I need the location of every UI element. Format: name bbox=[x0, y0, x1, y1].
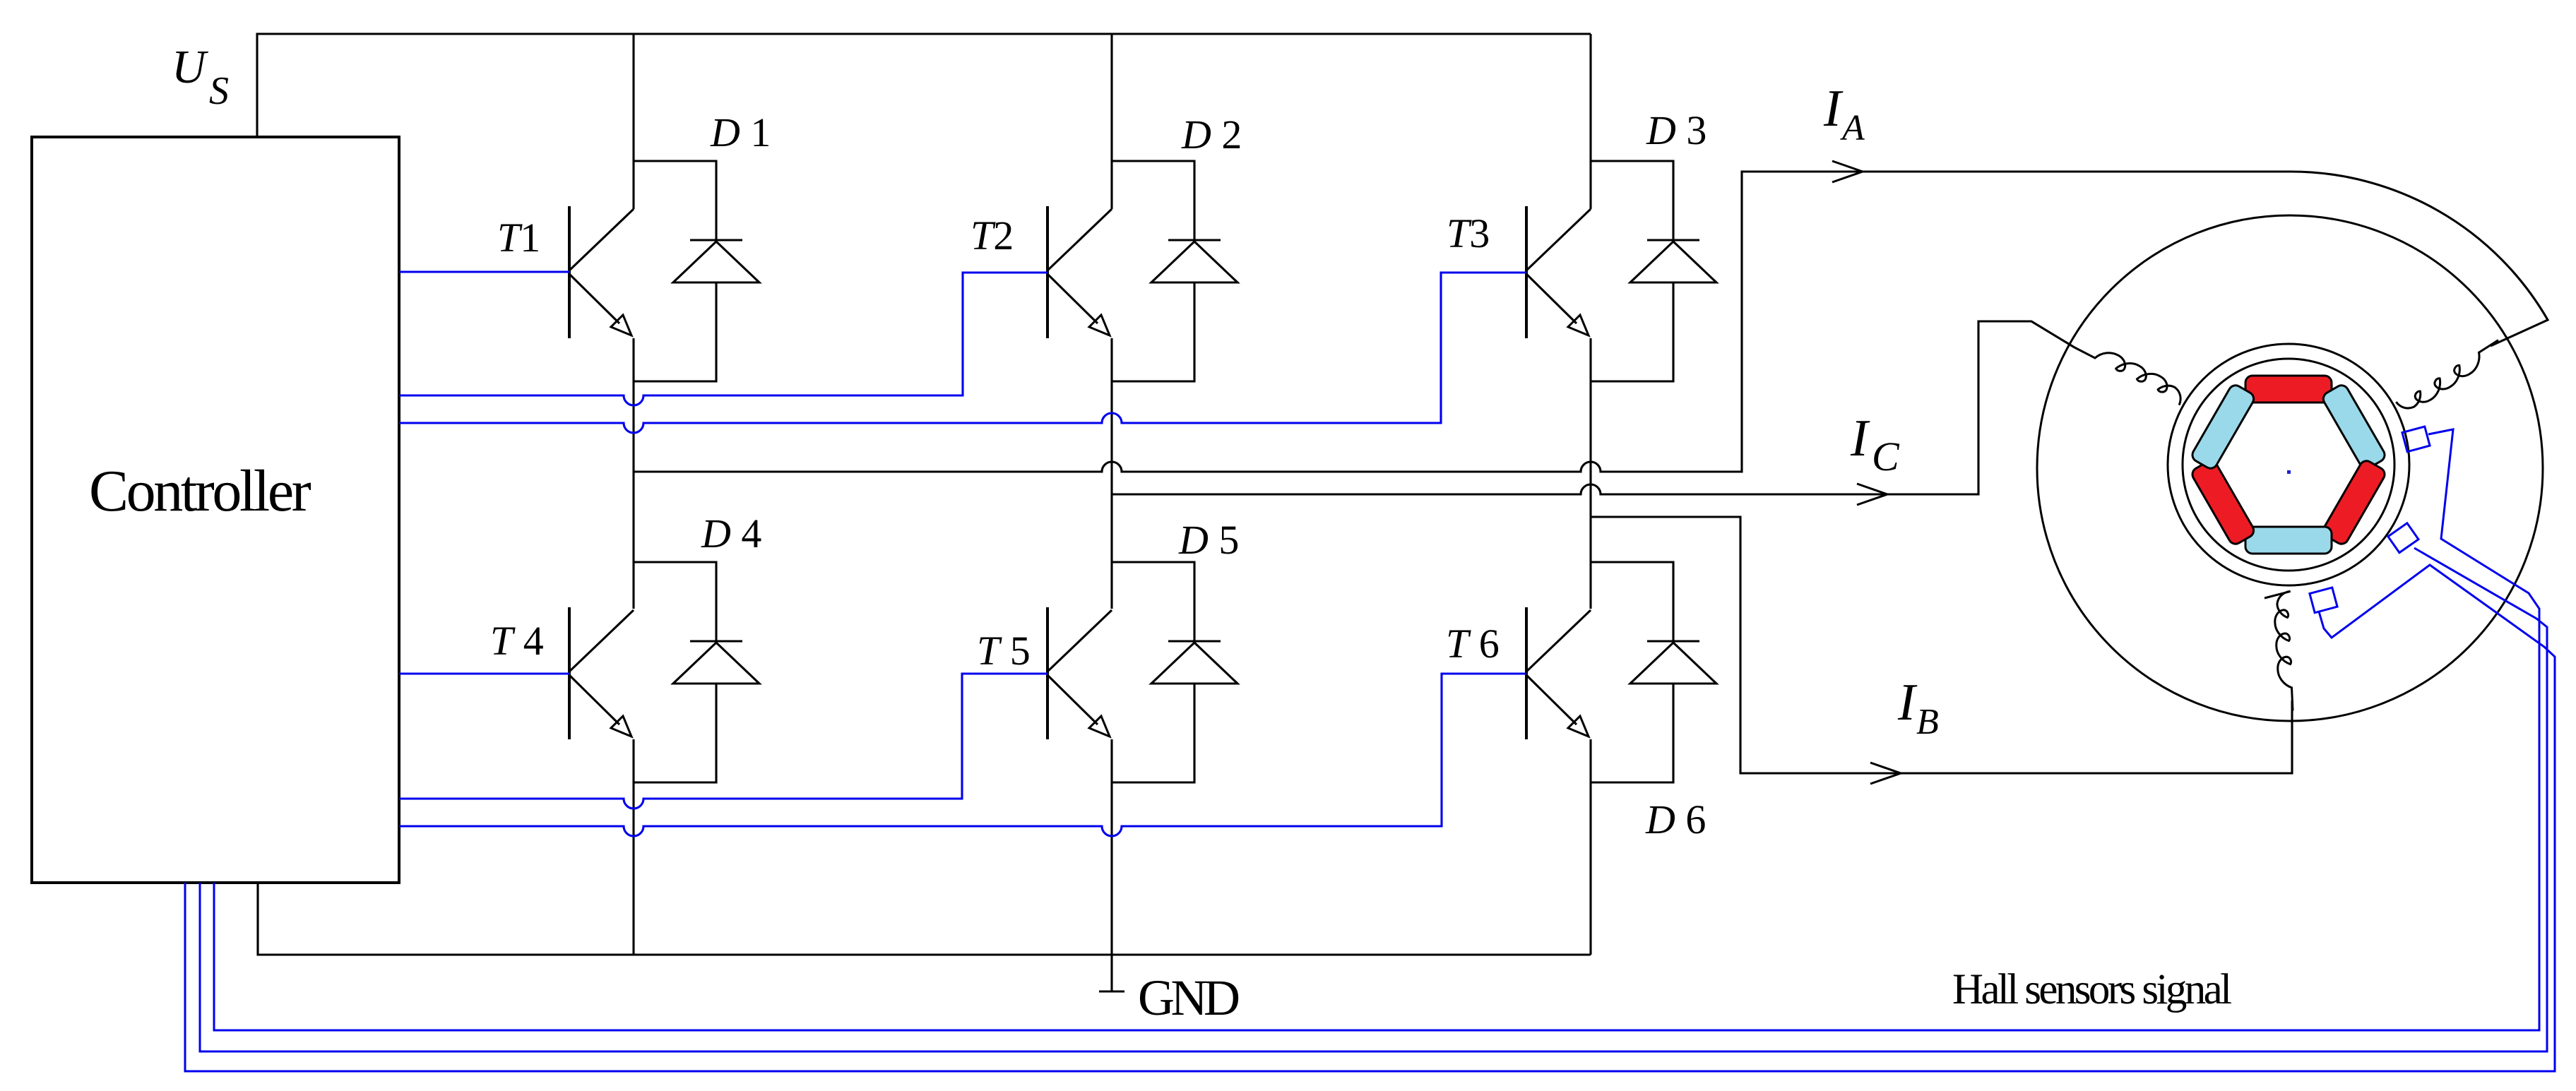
wire bottom bus from controller to leg 3 bbox=[258, 883, 1591, 955]
wire leg1 lower bbox=[632, 739, 634, 955]
svg-text:I: I bbox=[1850, 410, 1870, 467]
wire leg2 mid bbox=[1110, 338, 1112, 609]
label IB bbox=[1897, 674, 1939, 742]
wire hall H2 signal bbox=[200, 548, 2547, 1051]
magnet rotor pole lower-right red bbox=[2321, 458, 2387, 547]
svg-text:Controller: Controller bbox=[89, 458, 311, 524]
svg-text:D 5: D 5 bbox=[1178, 517, 1239, 563]
magnet rotor pole upper-right cyan bbox=[2321, 383, 2387, 471]
svg-text:Hall sensors signal: Hall sensors signal bbox=[1952, 966, 2231, 1013]
diode D6 bbox=[1591, 562, 1716, 782]
svg-text:A: A bbox=[1840, 108, 1865, 148]
svg-text:D 4: D 4 bbox=[701, 511, 761, 556]
LEG1 group bbox=[632, 34, 634, 955]
svg-text:T2: T2 bbox=[971, 213, 1014, 258]
diode D5 bbox=[1112, 562, 1237, 782]
arrow IB bbox=[1870, 763, 1901, 784]
wire gate T5 bbox=[399, 674, 1047, 809]
diode D1 bbox=[634, 161, 759, 381]
transistor T5 bbox=[1047, 607, 1112, 739]
wire gate T1 bbox=[399, 270, 569, 273]
winding coil phase A upper-right bbox=[2396, 340, 2498, 408]
motor stator outer circle bbox=[2037, 215, 2543, 721]
wire leg2 lower bbox=[1110, 739, 1112, 955]
wire leg3 upper collector bbox=[1589, 34, 1591, 209]
wire gate T2 bbox=[399, 273, 1047, 405]
svg-text:I: I bbox=[1897, 674, 1918, 732]
LEG2 group bbox=[1110, 34, 1112, 955]
transistor T4 bbox=[569, 607, 634, 739]
wire leg1 mid bbox=[632, 338, 634, 609]
wire gate T6 bbox=[399, 674, 1526, 836]
wire leg3 lower bbox=[1589, 739, 1591, 955]
diode D3 bbox=[1591, 161, 1716, 381]
svg-text:T1: T1 bbox=[497, 215, 540, 261]
svg-text:T3: T3 bbox=[1447, 210, 1490, 256]
svg-text:U: U bbox=[172, 41, 209, 93]
svg-text:T 5: T 5 bbox=[977, 628, 1031, 674]
motor center dot bbox=[2287, 470, 2291, 474]
HALL sensors bbox=[185, 427, 2555, 1071]
svg-text:D 1: D 1 bbox=[710, 109, 771, 155]
svg-text:D 6: D 6 bbox=[1645, 797, 1706, 842]
diode D4 bbox=[634, 562, 759, 782]
svg-text:GND: GND bbox=[1138, 970, 1239, 1026]
svg-text:C: C bbox=[1872, 434, 1900, 479]
winding coil phase C upper-left bbox=[2075, 347, 2180, 405]
transistor T2 bbox=[1047, 206, 1112, 338]
wire leg1 upper collector bbox=[632, 34, 634, 209]
controller box U1 bbox=[32, 137, 399, 883]
hall sensor H1 bbox=[2402, 427, 2430, 452]
wire phase A rail from leg1 to motor bbox=[634, 172, 2548, 472]
label IC bbox=[1850, 410, 1900, 479]
BLUE gate wires bbox=[399, 272, 1526, 836]
svg-text:T 6: T 6 bbox=[1446, 621, 1500, 667]
svg-text:D 3: D 3 bbox=[1646, 107, 1707, 153]
wire hall H1 signal bbox=[214, 429, 2539, 1030]
wire phase B rail from leg3 to motor bbox=[1591, 517, 2292, 773]
svg-text:I: I bbox=[1823, 80, 1844, 138]
transistor T1 bbox=[569, 206, 634, 338]
svg-text:B: B bbox=[1916, 702, 1939, 742]
wire gate T4 bbox=[399, 672, 569, 674]
diode D2 bbox=[1112, 161, 1237, 381]
wire top bus from Us node to leg 3 bbox=[257, 34, 1591, 137]
ground GND symbol bbox=[1099, 955, 1124, 991]
transistor T3 bbox=[1526, 206, 1591, 338]
arrow IA bbox=[1832, 161, 1863, 182]
node Us label bbox=[172, 41, 229, 113]
magnet rotor pole top red bbox=[2245, 376, 2332, 403]
svg-text:T 4: T 4 bbox=[490, 618, 544, 664]
svg-text:D 2: D 2 bbox=[1181, 112, 1242, 157]
arrow IC bbox=[1857, 484, 1887, 505]
hall sensor H3 bbox=[2310, 588, 2337, 613]
magnet rotor pole upper-left cyan bbox=[2190, 383, 2256, 471]
magnet rotor pole lower-left red bbox=[2190, 458, 2256, 547]
wire hall H3 signal bbox=[185, 565, 2555, 1071]
wire leg3 mid bbox=[1589, 338, 1591, 609]
wire phase C rail from leg2 to motor bbox=[1112, 321, 2075, 494]
winding coil phase B bottom bbox=[2265, 591, 2293, 710]
motor stator bore circle bbox=[2168, 344, 2409, 585]
wire gate T3 bbox=[399, 273, 1526, 433]
transistor T6 bbox=[1526, 607, 1591, 739]
magnet rotor pole bottom cyan bbox=[2245, 527, 2332, 554]
LEG3 group bbox=[1589, 34, 1591, 955]
motor rotor circle bbox=[2183, 359, 2394, 571]
hall sensor H2 bbox=[2388, 523, 2418, 553]
label IA bbox=[1823, 80, 1865, 148]
svg-text:S: S bbox=[209, 69, 229, 113]
wire leg2 upper collector bbox=[1110, 34, 1112, 209]
